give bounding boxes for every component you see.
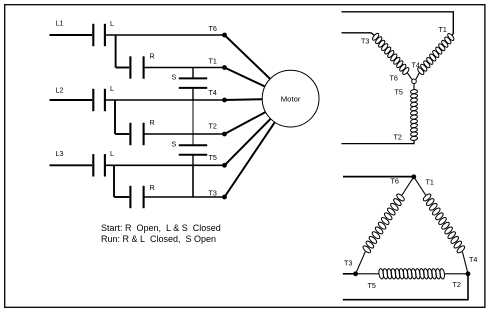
- wire T3 to motor: [225, 122, 275, 197]
- svg-text:T1: T1: [439, 25, 447, 34]
- wire wye T6 to star point: [407, 73, 412, 80]
- node delta T3: [344, 259, 352, 268]
- winding delta T6-T3: [362, 193, 406, 254]
- note start condition: [101, 223, 221, 233]
- svg-text:T3: T3: [209, 189, 217, 198]
- wire T6 to motor: [225, 35, 271, 79]
- node L2: [56, 86, 64, 95]
- node wye T4: [412, 61, 420, 70]
- svg-text:T5: T5: [209, 153, 217, 162]
- svg-text:T2: T2: [394, 133, 402, 142]
- svg-text:L2: L2: [56, 86, 64, 95]
- wire star point to winding T5: [413, 84, 415, 90]
- contact S (upper): [172, 68, 208, 101]
- svg-text:T5: T5: [368, 281, 376, 290]
- wire T2 to motor: [225, 112, 266, 134]
- node delta T4: [469, 255, 477, 264]
- wire right winding to right vertex: [462, 252, 468, 274]
- wire left vertex to bottom winding: [356, 273, 380, 275]
- wire delta line lead top: [343, 176, 414, 178]
- svg-text:R: R: [150, 118, 155, 127]
- node wye T5: [395, 88, 403, 97]
- svg-text:Run: R & L Closed, S Open: Run: R & L Closed, S Open: [101, 234, 216, 244]
- wire delta line lead bottom: [343, 274, 468, 300]
- contact L2-L (normally open): [93, 84, 114, 111]
- svg-text:S: S: [172, 72, 177, 81]
- svg-text:T6: T6: [390, 74, 398, 83]
- note run condition: [101, 234, 216, 244]
- svg-text:Motor: Motor: [281, 94, 301, 103]
- wire apex to right winding: [414, 177, 426, 195]
- wire branch drop row3: [114, 165, 129, 197]
- svg-text:T6: T6: [209, 24, 217, 33]
- svg-text:Start: R Open, L & S Closed: Start: R Open, L & S Closed: [101, 223, 221, 233]
- node T5: [209, 153, 227, 168]
- winding delta T1-T4: [422, 193, 466, 254]
- wire wye line lead to T1: [342, 12, 454, 36]
- wire wye line lead to T2: [342, 141, 415, 144]
- wire L2 lead: [50, 99, 93, 101]
- svg-text:S: S: [172, 140, 177, 149]
- svg-text:T1: T1: [209, 57, 217, 66]
- svg-text:T6: T6: [391, 177, 399, 186]
- svg-text:R: R: [150, 183, 155, 192]
- wire branch drop row1: [116, 35, 130, 68]
- contact R (row 2): [130, 118, 154, 145]
- svg-text:L: L: [110, 19, 114, 28]
- svg-text:T5: T5: [395, 88, 403, 97]
- wire contact L to node T6: [105, 34, 225, 36]
- node wye T1: [439, 25, 447, 34]
- svg-text:T2: T2: [453, 280, 461, 289]
- wire contact L to node T4: [105, 99, 225, 101]
- wire apex to left winding: [402, 177, 414, 195]
- svg-text:R: R: [150, 52, 155, 61]
- wire left winding to left vertex: [356, 252, 366, 274]
- wire wye T4 to star point: [416, 73, 419, 80]
- wire contact R to node T3: [144, 196, 225, 198]
- node L1: [56, 19, 64, 28]
- svg-text:T1: T1: [426, 178, 434, 187]
- junction delta right vertex T4/T2: [466, 271, 471, 276]
- winding wye T1-T4: [417, 33, 456, 76]
- node L3: [56, 149, 64, 158]
- node T3: [209, 189, 227, 200]
- contact L1-L (normally open): [93, 19, 114, 46]
- wire wye line lead to T3: [342, 33, 375, 35]
- svg-text:T4: T4: [209, 88, 217, 97]
- wire T5 to motor: [225, 119, 271, 166]
- node delta T1: [426, 178, 434, 187]
- node wye T2: [394, 133, 402, 142]
- wire T5 to T3 link: [192, 165, 194, 197]
- wire contact R to node T2: [144, 133, 225, 135]
- node T4: [209, 88, 227, 102]
- motor M1: [262, 70, 319, 127]
- contact R (row 3): [130, 183, 154, 208]
- wire delta line lead left: [343, 273, 356, 275]
- wire contact L to node T5: [105, 164, 225, 166]
- svg-text:T4: T4: [412, 61, 420, 70]
- svg-text:L3: L3: [56, 149, 64, 158]
- contact R (row 1): [130, 52, 154, 79]
- svg-text:L1: L1: [56, 19, 64, 28]
- junction wye star point: [412, 79, 417, 84]
- wire S chain T4 to lower S: [192, 100, 194, 145]
- winding wye T5-T2: [410, 89, 417, 141]
- contact S (lower): [172, 140, 208, 166]
- wire T4 to motor: [225, 98, 263, 101]
- wire T1 to motor: [225, 68, 265, 87]
- winding wye T3-T6: [371, 32, 410, 75]
- node delta T2: [453, 280, 461, 289]
- node T1: [209, 57, 227, 70]
- wire contact R to node T1: [144, 67, 225, 69]
- node delta T6: [391, 177, 399, 186]
- wire L1 lead: [50, 34, 93, 36]
- junction delta left vertex T3/T5: [353, 271, 358, 276]
- node T2: [209, 122, 227, 137]
- svg-text:L: L: [110, 149, 114, 158]
- node delta T5: [368, 281, 376, 290]
- svg-text:L: L: [110, 84, 114, 93]
- node wye T3: [361, 37, 369, 46]
- svg-text:T2: T2: [209, 122, 217, 131]
- node wye T6: [390, 74, 398, 83]
- wire bottom winding to right vertex: [444, 273, 468, 275]
- svg-text:T3: T3: [344, 259, 352, 268]
- junction delta apex T6/T1: [411, 174, 416, 179]
- contact L3-L (normally open): [93, 149, 114, 177]
- winding delta T5-T2: [378, 268, 445, 279]
- wire L3 lead: [50, 164, 93, 166]
- wire branch drop row2: [115, 100, 129, 134]
- svg-text:T3: T3: [361, 37, 369, 46]
- node T6: [209, 24, 227, 37]
- svg-text:T4: T4: [469, 255, 477, 264]
